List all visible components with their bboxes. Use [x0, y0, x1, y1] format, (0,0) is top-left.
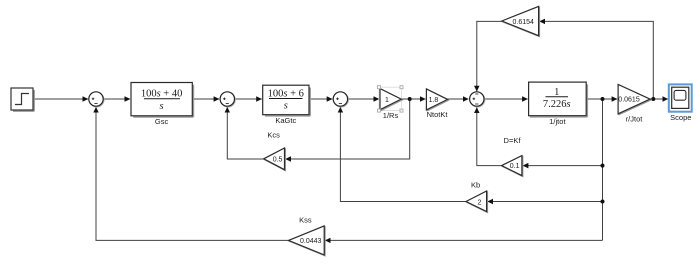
- svg-text:Kcs: Kcs: [267, 131, 280, 140]
- svg-text:7.226s: 7.226s: [543, 99, 571, 110]
- svg-text:NtotKt: NtotKt: [427, 110, 449, 119]
- svg-text:0.1: 0.1: [510, 163, 520, 170]
- svg-text:1.8: 1.8: [429, 97, 439, 104]
- svg-text:s: s: [284, 101, 288, 112]
- svg-text:s: s: [160, 101, 164, 112]
- svg-text:Kss: Kss: [299, 216, 312, 225]
- svg-text:0.0615: 0.0615: [618, 97, 640, 104]
- svg-text:100s + 40: 100s + 40: [141, 88, 183, 99]
- svg-text:D=Kf: D=Kf: [504, 136, 522, 145]
- svg-text:0.6154: 0.6154: [513, 19, 535, 26]
- svg-text:1: 1: [385, 97, 389, 104]
- svg-text:0.0443: 0.0443: [300, 238, 322, 245]
- svg-text:2: 2: [478, 199, 482, 206]
- svg-text:KaGtc: KaGtc: [275, 116, 296, 125]
- svg-text:Gsc: Gsc: [155, 117, 169, 126]
- svg-text:0.5: 0.5: [273, 157, 283, 164]
- svg-text:r/Jtot: r/Jtot: [626, 115, 644, 124]
- svg-text:1/Rs: 1/Rs: [383, 111, 399, 120]
- svg-text:100s + 6: 100s + 6: [268, 88, 304, 99]
- svg-text:Kb: Kb: [471, 181, 480, 190]
- svg-text:Scope: Scope: [670, 113, 691, 122]
- svg-text:1/jtot: 1/jtot: [549, 117, 566, 126]
